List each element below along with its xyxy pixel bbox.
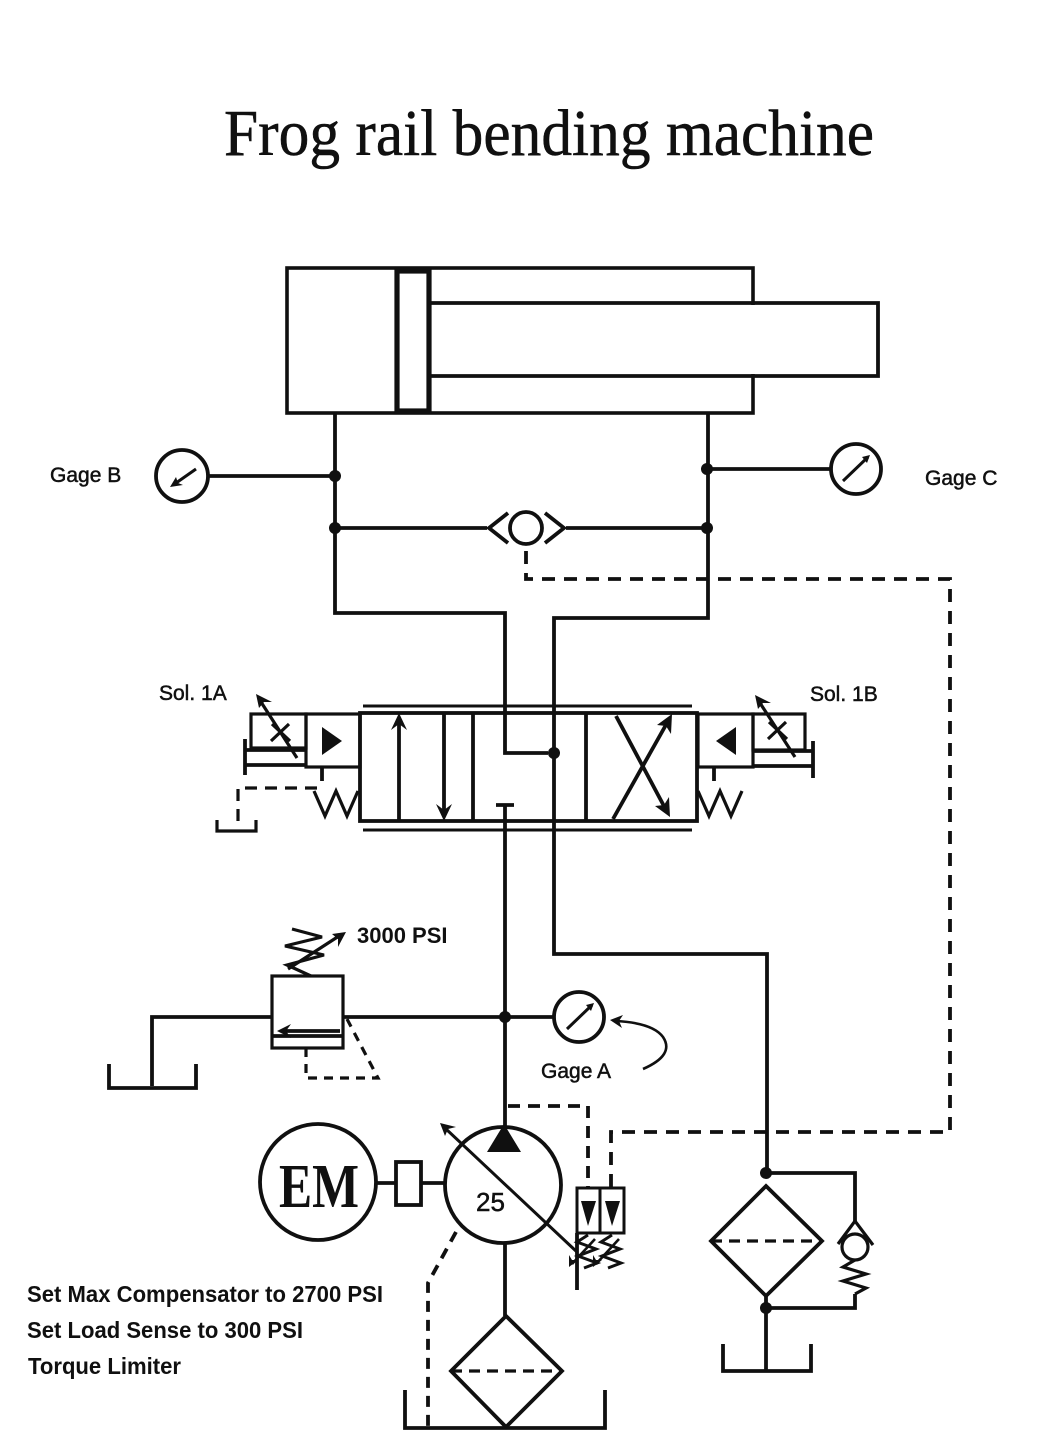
gauge Gage B <box>156 450 208 502</box>
svg-text:Sol. 1B: Sol. 1B <box>810 683 878 706</box>
svg-text:3000 PSI: 3000 PSI <box>357 923 448 948</box>
left bracket <box>243 739 247 775</box>
return filter diamond <box>711 1186 822 1296</box>
wire gauge B to line <box>208 474 335 478</box>
left drain dashed <box>238 788 317 824</box>
valve divider right <box>584 713 588 821</box>
pilot line dashed from orifice to compensator <box>526 551 950 1188</box>
svg-text:Gage B: Gage B <box>50 464 121 487</box>
svg-text:25: 25 <box>476 1187 505 1217</box>
check valve ball <box>842 1234 868 1260</box>
node left of orifice <box>329 522 341 534</box>
check valve seat <box>838 1221 873 1245</box>
svg-text:Set Max Compensator to 2700 PS: Set Max Compensator to 2700 PSI <box>27 1281 383 1307</box>
svg-text:Torque Limiter: Torque Limiter <box>28 1353 181 1379</box>
wire cap-side port down <box>335 413 505 712</box>
svg-text:Frog rail bending machine: Frog rail bending machine <box>224 97 874 170</box>
valve spring right <box>698 791 742 816</box>
valve X arrow 2 <box>616 716 665 808</box>
left pilot box <box>306 714 360 767</box>
coupling <box>376 1181 396 1185</box>
solenoid 1A arrow <box>261 702 297 758</box>
wire P line pump to valve <box>503 805 507 1128</box>
bypass check valve branch <box>766 1173 855 1221</box>
compensator box 1 <box>577 1188 600 1233</box>
valve blocked port T <box>496 803 514 807</box>
svg-text:Set Load Sense to 300 PSI: Set Load Sense to 300 PSI <box>27 1317 303 1343</box>
wire relief to tank <box>152 1017 272 1086</box>
gauge Gage A <box>554 992 604 1042</box>
relief valve internal line <box>272 1034 343 1038</box>
compensator spring 2 <box>601 1235 621 1268</box>
solenoid Sol.1B box <box>753 714 805 750</box>
valve arrow down (left cell) <box>442 714 446 814</box>
left pilot triangle <box>322 727 342 755</box>
cylinder barrel <box>287 268 753 413</box>
valve divider left <box>471 713 475 821</box>
node filter top <box>760 1167 772 1179</box>
svg-text:Gage A: Gage A <box>541 1060 611 1083</box>
valve top rail <box>363 705 692 708</box>
left drain tank <box>217 820 256 831</box>
valve X arrow 1 <box>613 723 667 819</box>
gage A callout arrow <box>616 1021 666 1069</box>
svg-text:Gage C: Gage C <box>925 467 997 490</box>
right bracket <box>811 741 815 778</box>
valve body <box>360 713 697 821</box>
svg-text:EM: EM <box>279 1153 359 1221</box>
node at gage C tap <box>701 463 713 475</box>
relief valve internal arrow <box>284 1029 340 1033</box>
right drain stub <box>712 767 716 781</box>
right pilot triangle <box>716 727 736 755</box>
node filter bottom <box>760 1302 772 1314</box>
cylinder rod <box>433 305 876 374</box>
suction strainer diamond <box>451 1316 562 1427</box>
cylinder piston <box>397 271 429 411</box>
gauge Gage C <box>831 444 881 494</box>
wire orifice to right <box>566 526 707 530</box>
left drain stub <box>320 767 324 781</box>
node at gage B tap <box>329 470 341 482</box>
node LS junction in valve <box>548 747 560 759</box>
pump outlet line <box>503 1243 507 1316</box>
compensator box 2 <box>600 1188 624 1233</box>
node P junction <box>499 1011 511 1023</box>
right pilot box <box>698 714 753 767</box>
pump variable arrow <box>446 1129 577 1252</box>
valve arrow up (left cell) <box>397 722 401 820</box>
wire to gage A <box>505 1015 554 1019</box>
wire left to orifice <box>335 526 487 530</box>
pump outlet triangle <box>487 1124 521 1152</box>
wire gauge C to line <box>707 467 831 471</box>
relief spring <box>285 929 324 976</box>
relief pilot dashed <box>306 1019 378 1078</box>
motor EM <box>260 1124 376 1240</box>
suction tank <box>405 1390 605 1428</box>
pump circle <box>445 1127 561 1243</box>
wire filter bottom <box>764 1296 768 1371</box>
svg-text:Sol. 1A: Sol. 1A <box>159 682 227 705</box>
node right of orifice <box>701 522 713 534</box>
relief valve box <box>272 976 343 1048</box>
solenoid 1B arrow <box>760 703 795 757</box>
compensator dashed from pump <box>508 1106 588 1188</box>
solenoid Sol.1A box <box>251 714 306 748</box>
orifice symbol <O> <box>510 512 542 544</box>
check valve spring <box>843 1260 866 1294</box>
valve center L line <box>505 712 548 753</box>
tank under relief <box>109 1064 196 1088</box>
relief adjust arrow 3000 PSI <box>288 936 339 969</box>
valve spring left <box>314 791 358 816</box>
pump case drain dashed <box>428 1232 456 1428</box>
wire relief to P line <box>343 1015 505 1019</box>
compensator drain line <box>575 1233 579 1290</box>
wire rod-side port down <box>554 413 767 1173</box>
return tank <box>723 1344 811 1371</box>
compensator spring 1 <box>577 1235 597 1268</box>
valve bottom rail <box>363 829 692 832</box>
